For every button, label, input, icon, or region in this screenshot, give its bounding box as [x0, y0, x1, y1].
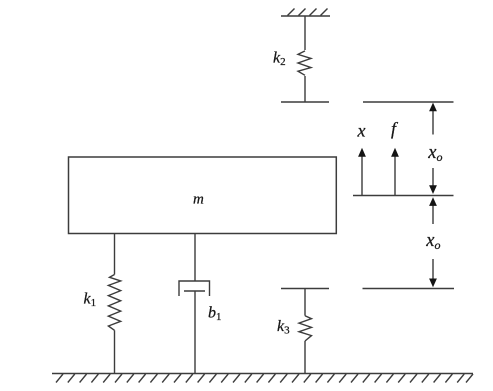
dimension arrow up (upper xo) [429, 103, 437, 135]
svg-text:k2: k2 [273, 50, 286, 69]
anchor plate line above k3 [281, 288, 329, 290]
ground hatching [56, 374, 473, 383]
svg-text:b1: b1 [208, 304, 222, 323]
dimension arrow up (lower xo) [429, 197, 437, 224]
wire: rod from spring k1 to ground [114, 330, 116, 373]
ground line [52, 373, 473, 375]
spring k2 [298, 51, 311, 75]
damper b1 cylinder (inverted cup) [179, 281, 210, 296]
bottom reference line (lower xo datum) [363, 288, 455, 290]
svg-text:m: m [193, 192, 204, 208]
wire: rod from mass to spring k1 [114, 234, 116, 275]
svg-text:f: f [391, 119, 399, 139]
anchor plate line below k2 [281, 101, 329, 103]
svg-text:k3: k3 [277, 318, 290, 337]
ceiling hatching [288, 9, 328, 16]
wire: rod from spring k2 to anchor plate [304, 76, 306, 102]
arrow x (displacement) [358, 148, 366, 196]
spring k3 [299, 316, 312, 341]
top reference line (upper xo datum) [363, 101, 454, 103]
wire: rod from ceiling to spring k2 [304, 16, 306, 50]
dimension arrow down (lower xo) [429, 259, 437, 287]
wire: rod from spring k3 to ground [304, 341, 306, 374]
dimension arrow down (upper xo) [429, 168, 437, 194]
arrow f (force) [391, 148, 399, 196]
svg-text:x: x [357, 121, 366, 141]
svg-text:xo: xo [427, 143, 442, 164]
wire: rod from mass to damper b1 cylinder [194, 234, 196, 282]
wire: rod from k3 anchor plate to spring k3 [304, 289, 306, 316]
wire: rod from damper piston to ground [194, 291, 196, 374]
middle reference line (mass equilibrium datum) [353, 195, 454, 197]
svg-text:xo: xo [425, 231, 440, 252]
spring k1 [108, 275, 120, 331]
ceiling fixed support line [281, 15, 330, 17]
svg-text:k1: k1 [84, 291, 97, 310]
mass m rectangle [69, 157, 337, 234]
damper b1 piston plate [184, 290, 205, 292]
